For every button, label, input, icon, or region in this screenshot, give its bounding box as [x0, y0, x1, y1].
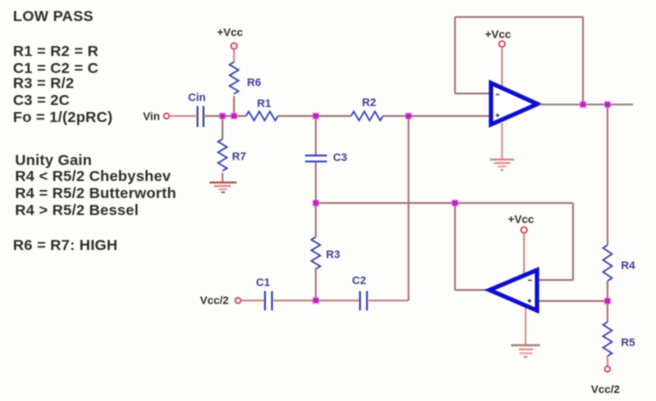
terminal Vcc/2 right: [591, 366, 620, 396]
node D junction C3/R3: [312, 199, 319, 206]
svg-text:R1 = R2 = R: R1 = R2 = R: [13, 43, 99, 60]
svg-text:Vcc/2: Vcc/2: [200, 295, 229, 307]
wire feedback U2: [455, 203, 573, 280]
capacitor C2: [352, 275, 367, 311]
svg-text:R6: R6: [247, 77, 261, 89]
svg-text:C3 = 2C: C3 = 2C: [13, 92, 70, 109]
capacitor C3: [305, 152, 347, 164]
wire output down to R4: [607, 105, 609, 246]
svg-text:R2: R2: [362, 97, 376, 109]
wire +Vcc stem U1: [501, 47, 503, 87]
wire C1 to node F: [274, 300, 360, 302]
node main junction R2/riser: [405, 112, 412, 119]
wire U2 output to node E: [455, 203, 490, 290]
wire node D to node E: [316, 202, 455, 204]
svg-text:R4 = R5/2 Butterworth: R4 = R5/2 Butterworth: [15, 185, 176, 202]
wire +Vcc to R6: [233, 49, 235, 62]
resistor R5: [603, 322, 635, 356]
wire U1 to ground: [501, 123, 503, 159]
node F junction C1/C2/R3: [312, 297, 319, 304]
resistor R3: [311, 237, 340, 269]
terminal Vcc/2 left: [200, 295, 241, 307]
wire C3 to node D: [315, 162, 317, 203]
svg-text:Vin: Vin: [143, 111, 160, 123]
wire U2 to ground: [525, 307, 527, 345]
node U1 output junction: [604, 101, 611, 108]
svg-text:Fo = 1/(2pRC): Fo = 1/(2pRC): [13, 109, 113, 126]
resistor R4: [603, 245, 636, 281]
wire R5 to Vcc/2: [607, 356, 609, 366]
svg-text:R4: R4: [621, 260, 636, 272]
ground under U2: [511, 345, 540, 357]
wire U1 output: [540, 104, 634, 106]
power +Vcc terminal for R6: [217, 27, 243, 49]
wire C2 to riser: [369, 300, 409, 302]
svg-text:Unity Gain: Unity Gain: [15, 152, 92, 169]
wire R4 to node G: [607, 281, 609, 322]
node U1 feedback junction: [579, 101, 586, 108]
terminal Vin: [143, 111, 169, 123]
svg-text:+Vcc: +Vcc: [485, 29, 511, 41]
resistor R2: [351, 97, 383, 121]
resistor R1: [246, 98, 278, 121]
svg-text:C3: C3: [333, 152, 347, 164]
wire R6 to node B: [233, 96, 235, 116]
svg-text:R5: R5: [621, 337, 635, 349]
ground under R7: [210, 183, 237, 193]
svg-text:C1: C1: [256, 277, 270, 289]
node C junction R1/R2/C3: [312, 112, 319, 119]
resistor R7: [218, 139, 246, 171]
wire node G to op-amp U2 + input: [537, 300, 608, 302]
svg-text:R3: R3: [326, 249, 340, 261]
wire R1 to node C: [278, 115, 351, 117]
svg-text:Vcc/2: Vcc/2: [591, 384, 620, 396]
wire R7 to ground: [222, 173, 224, 182]
wire node A to R7: [222, 116, 224, 139]
node G junction R4/R5: [604, 297, 611, 304]
svg-text:R7: R7: [232, 151, 246, 163]
svg-text:LOW PASS: LOW PASS: [13, 8, 94, 25]
wire +Vcc stem U2: [523, 233, 525, 274]
svg-text:R4 < R5/2 Chebyshev: R4 < R5/2 Chebyshev: [15, 168, 171, 185]
op-amp U2: [490, 270, 538, 311]
wire feedback U1 top: [455, 17, 583, 105]
svg-text:+Vcc: +Vcc: [217, 27, 243, 39]
wire node C down to C3: [315, 116, 317, 155]
svg-text:R3 = R/2: R3 = R/2: [13, 75, 74, 92]
capacitor C1: [256, 277, 272, 311]
wire R2 to op-amp U1: [383, 115, 491, 117]
svg-text:+Vcc: +Vcc: [508, 214, 534, 226]
ground under U1: [490, 160, 514, 171]
power +Vcc terminal U1: [485, 29, 511, 47]
wire R3 to node F: [315, 268, 317, 301]
node E junction U2 output: [451, 199, 458, 206]
wire Vin to Cin: [170, 115, 197, 117]
node B junction R6/R1: [230, 112, 237, 119]
svg-text:C2: C2: [352, 275, 366, 287]
wire riser node C2 up to main node: [408, 116, 410, 301]
power +Vcc terminal U2: [508, 214, 534, 233]
capacitor Cin: [188, 92, 206, 127]
svg-text:Cin: Cin: [188, 92, 206, 104]
wire node D down to R3: [315, 203, 317, 237]
svg-text:R1: R1: [257, 98, 271, 110]
wire Cin to node A: [205, 115, 246, 117]
op-amp U1: [491, 83, 538, 125]
resistor R6: [230, 62, 262, 94]
node A junction Cin/R7: [219, 112, 226, 119]
svg-text:R6 = R7: HIGH: R6 = R7: HIGH: [13, 237, 118, 254]
wire Vcc/2 to C1: [241, 300, 264, 302]
svg-text:R4 > R5/2 Bessel: R4 > R5/2 Bessel: [15, 202, 139, 219]
